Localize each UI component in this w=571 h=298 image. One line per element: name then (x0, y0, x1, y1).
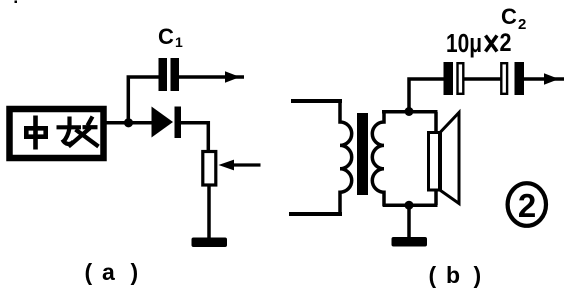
text 中 (26, 116, 45, 150)
IF amplifier box U1 (中放) (10, 109, 104, 158)
svg-text:C: C (501, 4, 517, 29)
transformer T1 secondary winding (372, 110, 384, 207)
svg-text:(a): (a) (85, 259, 139, 285)
wire C1 to output arrow (179, 75, 244, 79)
svg-text:1: 1 (175, 34, 183, 50)
ground (left) (192, 238, 228, 248)
node A (junction) (124, 118, 133, 127)
node C (bottom junction) (405, 201, 414, 210)
secondary bottom wire (383, 203, 438, 207)
svg-text:C: C (158, 24, 174, 49)
transformer T1 primary bottom stub (289, 212, 342, 216)
wire node up to C1 (128, 77, 159, 123)
capacitor C2 second (electrolytic) (501, 63, 507, 94)
figure number circle 2 (508, 183, 546, 226)
speaker LS1 body (429, 133, 440, 191)
svg-text:(b): (b) (429, 262, 482, 288)
svg-text:10μ: 10μ (446, 30, 482, 58)
wire between C2 capacitors (465, 77, 502, 81)
speaker LS1 cone (441, 113, 460, 204)
svg-text:2: 2 (518, 16, 526, 33)
wire node B up to C2 pair (409, 79, 445, 112)
svg-text:2: 2 (518, 187, 536, 224)
transformer core (357, 113, 368, 195)
transformer T1 primary top stub (291, 99, 342, 103)
text 放 (57, 117, 99, 147)
wire box to diode (104, 121, 153, 125)
wire node C to ground (407, 205, 411, 238)
ground (right) (392, 237, 428, 247)
svg-text:2: 2 (500, 29, 512, 57)
wiper arrow into R1 (231, 163, 261, 166)
wire diode to resistor (181, 123, 208, 151)
resistor R1 (detector load) (203, 152, 216, 186)
capacitor C1 (159, 58, 168, 91)
speckle top-left (15, 1, 18, 4)
output arrow (b) (524, 77, 564, 81)
node B (top junction) (405, 107, 414, 116)
speaker LS1 leads (434, 112, 438, 132)
secondary top wire (382, 110, 438, 114)
diode D1 (152, 107, 174, 138)
capacitor C2 first (electrolytic) (444, 62, 454, 95)
wire resistor to ground (207, 185, 211, 239)
transformer T1 primary winding (340, 99, 352, 216)
